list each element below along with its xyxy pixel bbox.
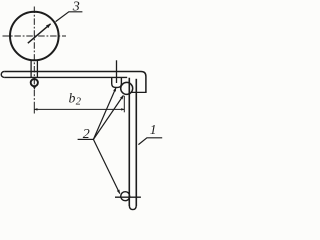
label 2 underline <box>78 138 94 140</box>
dial horizontal centerline <box>3 35 67 37</box>
dial indicator bezel circle <box>10 12 59 61</box>
leader line to label 3 <box>56 12 83 22</box>
clamp bottom edge <box>131 91 147 93</box>
svg-text:2: 2 <box>76 97 82 108</box>
dial vertical centerline <box>33 7 35 107</box>
bracket arm top edge <box>4 71 141 73</box>
label 1 leader <box>138 138 162 145</box>
dial centerline tail below dimension <box>33 107 35 114</box>
leader 2c to bottom screw <box>93 139 119 193</box>
clamp screw axis <box>116 60 118 83</box>
clamp screw head cup <box>112 78 122 87</box>
bottom clamp screw axis <box>115 196 141 198</box>
rod 1 right edge <box>135 79 137 206</box>
contact tip <box>33 86 36 89</box>
indicator stem <box>31 61 37 78</box>
leader 2a to clamp screw head <box>93 88 116 140</box>
dimension line b2 <box>34 108 124 110</box>
contact ball <box>31 79 38 86</box>
svg-text:b: b <box>69 90 76 105</box>
rod 1 bottom cap <box>129 205 136 210</box>
clamp screw circle (screw 2 upper) <box>121 82 133 94</box>
bottom clamp screw circle (screw 2 lower) <box>121 192 130 201</box>
dimension extension line <box>123 96 125 113</box>
rod 1 left edge <box>128 78 130 206</box>
leader 2b to clamp screw circle <box>93 95 123 139</box>
svg-text:1: 1 <box>150 122 157 137</box>
bracket arm bottom edge <box>4 76 127 78</box>
svg-text:3: 3 <box>72 0 80 14</box>
indicator needle <box>28 24 51 43</box>
bracket arm left rounded cap <box>1 72 4 78</box>
bracket corner and clamp right edge <box>141 72 146 93</box>
